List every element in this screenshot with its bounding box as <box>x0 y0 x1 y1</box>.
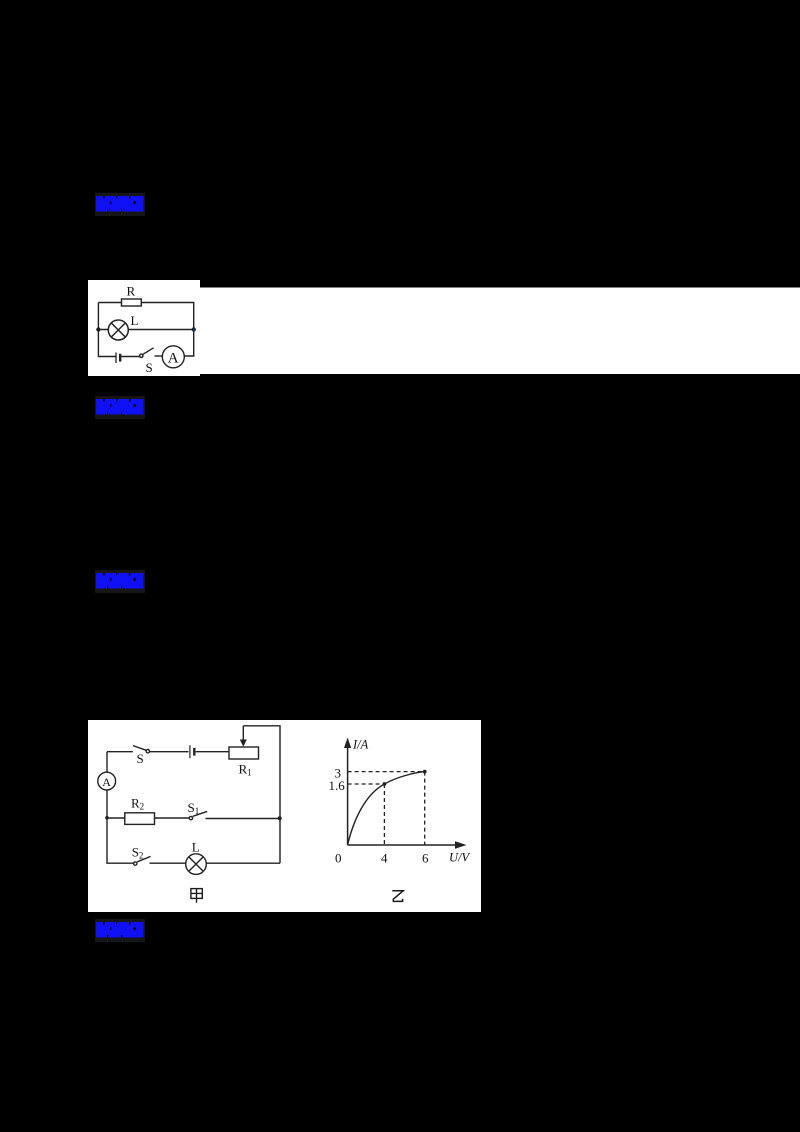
resistor R <box>122 299 142 306</box>
axis arrowheads <box>344 738 351 749</box>
image 2: circuit 甲 and graph 乙 <box>87 720 481 912</box>
lamp L <box>186 854 207 875</box>
data point (6,3) <box>423 770 427 774</box>
wire wiper to right rail <box>243 726 280 863</box>
rheostat R1 <box>229 747 259 759</box>
resistor R2 <box>125 813 155 825</box>
wire ammeter to right rail <box>184 355 193 356</box>
wire middle branch <box>98 329 193 331</box>
lamp L <box>108 320 128 340</box>
svg-text:A: A <box>102 775 111 789</box>
svg-text:6: 6 <box>422 851 429 866</box>
甲 caption <box>191 889 202 903</box>
data point (4,1.6) <box>383 782 387 786</box>
wire battery to R1 <box>196 751 229 753</box>
R1 wiper arrow <box>242 726 244 740</box>
wire lamp to right rail <box>206 862 280 864</box>
battery <box>115 353 117 364</box>
wire left rail lower + bottom branch <box>107 817 134 864</box>
node right <box>192 327 196 331</box>
svg-text:S: S <box>146 360 153 375</box>
dashed guide lines <box>348 772 425 845</box>
wire battery to switch <box>121 356 139 358</box>
wire S1 to right rail <box>206 818 280 820</box>
blue label 1 <box>95 193 145 216</box>
svg-text:1.6: 1.6 <box>329 778 346 793</box>
node A-R2 junction <box>105 816 109 820</box>
svg-text:S: S <box>137 751 144 766</box>
blue label 4 <box>95 919 145 942</box>
svg-text:L: L <box>192 840 200 855</box>
switch S <box>140 354 143 357</box>
wire switch to ammeter <box>155 355 163 357</box>
svg-text:A: A <box>168 351 179 367</box>
svg-text:4: 4 <box>381 851 388 866</box>
svg-text:I/A: I/A <box>352 738 369 752</box>
battery <box>189 745 191 758</box>
ammeter A <box>98 772 116 790</box>
wire S2 to lamp <box>150 862 186 864</box>
curve <box>348 772 425 845</box>
switch S2 <box>134 862 137 865</box>
wire top: left rail to switch <box>107 751 133 753</box>
svg-text:L: L <box>131 313 139 328</box>
svg-text:R: R <box>127 284 136 299</box>
blue label 3 <box>95 570 145 593</box>
white background of figure <box>88 280 200 376</box>
blue label 2 <box>95 396 145 419</box>
image 1: circuit with R, L, S, A <box>88 279 800 376</box>
wire left rail top <box>106 752 108 817</box>
wire switch to battery <box>150 751 189 753</box>
乙 caption <box>392 891 403 902</box>
node left <box>96 327 100 331</box>
node right rail junction <box>278 816 282 820</box>
switch S <box>146 750 149 753</box>
switch S1 <box>189 816 192 819</box>
graph axes <box>348 747 455 845</box>
svg-text:0: 0 <box>335 851 342 866</box>
svg-text:U/V: U/V <box>449 851 471 865</box>
wire outer loop <box>98 303 193 357</box>
ammeter A <box>162 346 184 368</box>
wire middle branch <box>107 817 189 819</box>
